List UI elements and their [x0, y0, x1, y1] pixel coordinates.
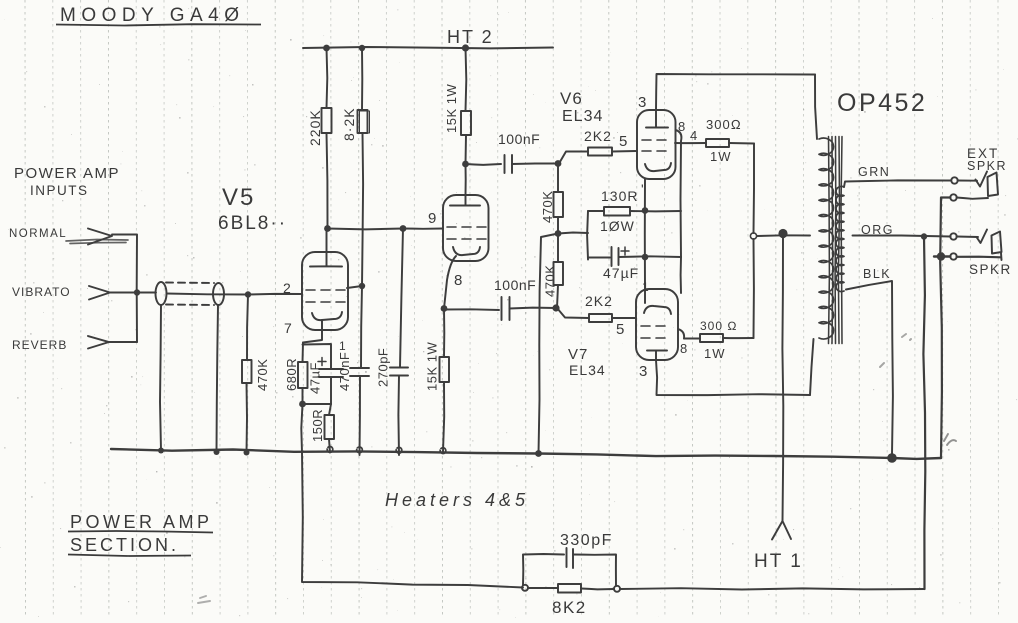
svg-text:470K: 470K [540, 191, 555, 223]
svg-text:ORG: ORG [861, 223, 894, 237]
svg-text:300Ω: 300Ω [706, 117, 742, 132]
svg-text:2K2: 2K2 [584, 128, 612, 144]
svg-text:330pF: 330pF [560, 532, 613, 549]
svg-text:V5: V5 [222, 184, 255, 211]
svg-text:680R: 680R [284, 358, 299, 391]
svg-text:470K: 470K [255, 359, 270, 391]
svg-text:GRN: GRN [858, 165, 890, 179]
svg-text:POWER AMP: POWER AMP [14, 165, 120, 182]
svg-text:100nF: 100nF [494, 277, 536, 293]
svg-text:SPKR: SPKR [967, 159, 1007, 173]
svg-text:EL34: EL34 [562, 108, 603, 125]
svg-text:VIBRATO: VIBRATO [12, 285, 71, 299]
svg-text:BLK: BLK [863, 267, 891, 281]
svg-text:HT 1: HT 1 [754, 551, 803, 572]
svg-text:POWER AMP: POWER AMP [70, 512, 213, 532]
svg-text:SPKR: SPKR [969, 262, 1012, 277]
svg-text:3: 3 [638, 94, 646, 111]
svg-text:EL34: EL34 [569, 362, 606, 378]
svg-text:OP452: OP452 [837, 89, 927, 117]
svg-text:470nF: 470nF [337, 352, 352, 391]
svg-text:5: 5 [616, 321, 624, 338]
svg-text:Heaters 4&5: Heaters 4&5 [385, 490, 529, 510]
svg-text:NORMAL: NORMAL [9, 228, 67, 240]
svg-text:130R: 130R [601, 188, 638, 204]
svg-text:V6: V6 [560, 89, 583, 108]
svg-text:15K 1W: 15K 1W [444, 84, 459, 133]
svg-text:1: 1 [339, 339, 346, 353]
svg-text:270pF: 270pF [376, 348, 391, 387]
svg-text:3: 3 [639, 363, 647, 380]
svg-text:2K2: 2K2 [585, 293, 613, 309]
svg-text:1: 1 [642, 280, 649, 294]
svg-text:REVERB: REVERB [12, 338, 67, 352]
svg-text:100nF: 100nF [498, 131, 540, 147]
svg-text:8: 8 [678, 119, 685, 134]
svg-text:4: 4 [690, 128, 697, 143]
svg-text:15K 1W: 15K 1W [425, 342, 440, 391]
svg-text:9: 9 [428, 210, 436, 227]
svg-text:8K2: 8K2 [552, 598, 587, 617]
svg-text:150R: 150R [310, 409, 325, 442]
svg-text:1W: 1W [710, 149, 732, 164]
svg-text:SECTION.: SECTION. [70, 535, 179, 555]
svg-text:47µF: 47µF [603, 265, 639, 281]
svg-text:6BL8··: 6BL8·· [218, 213, 287, 234]
svg-text:2: 2 [283, 280, 291, 296]
svg-text:8: 8 [454, 272, 462, 289]
svg-text:8·2K: 8·2K [341, 107, 357, 141]
svg-text:47µF: 47µF [308, 362, 323, 394]
svg-text:7: 7 [284, 320, 292, 336]
svg-text:300 Ω: 300 Ω [700, 319, 738, 333]
svg-text:5: 5 [619, 133, 627, 150]
svg-text:1W: 1W [704, 346, 726, 361]
svg-text:470K: 470K [543, 265, 558, 297]
svg-text:MOODY GA4Ø: MOODY GA4Ø [60, 5, 245, 26]
svg-text:INPUTS: INPUTS [30, 183, 89, 198]
svg-text:V7: V7 [568, 346, 588, 363]
svg-text:1ØW: 1ØW [600, 218, 635, 234]
svg-text:8: 8 [680, 341, 687, 356]
svg-text:': ' [641, 181, 644, 197]
svg-text:220K: 220K [307, 109, 323, 146]
svg-text:HT 2: HT 2 [447, 27, 494, 47]
